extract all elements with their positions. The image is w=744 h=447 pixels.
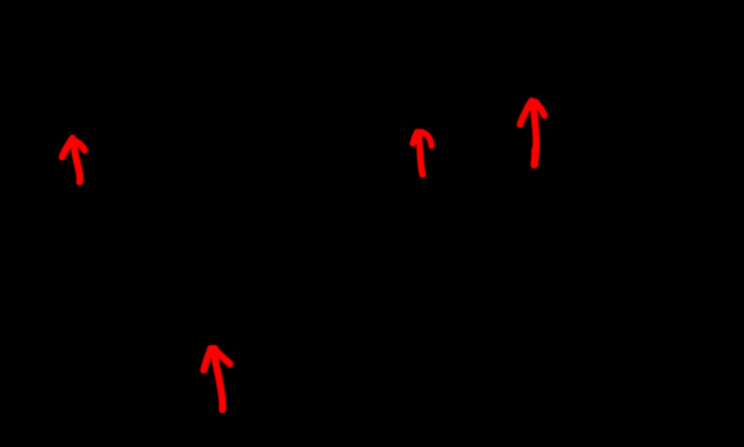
- annotation arrow 3 (middle, pointing up): [413, 132, 432, 175]
- annotation arrow 1 (top-left, pointing up): [62, 138, 84, 182]
- annotation arrow 4 (upper-right, pointing up): [520, 101, 544, 165]
- annotation arrow 2 (bottom-middle, pointing up): [204, 349, 230, 410]
